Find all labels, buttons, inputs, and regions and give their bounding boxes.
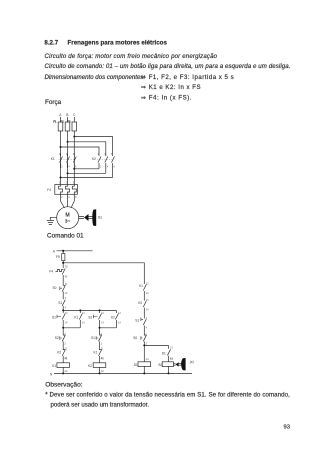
svg-text:* Deve ser conferido o valor d: * Deve ser conferido o valor da tensão n… xyxy=(45,392,290,399)
svg-text:S1: S1 xyxy=(91,336,95,340)
svg-text:S2: S2 xyxy=(55,336,59,340)
svg-text:K1: K1 xyxy=(74,316,78,320)
svg-text:F1: F1 xyxy=(53,120,57,124)
svg-text:S1: S1 xyxy=(52,316,56,320)
svg-text:⇒ K1 e K2: In x FS: ⇒ K1 e K2: In x FS xyxy=(141,84,201,91)
svg-text:S1: S1 xyxy=(58,301,62,305)
svg-text:K2: K2 xyxy=(92,157,96,161)
svg-text:K1: K1 xyxy=(51,157,55,161)
svg-text:K1: K1 xyxy=(94,351,98,355)
svg-text:K2: K2 xyxy=(57,351,61,355)
svg-text:Comando 01: Comando 01 xyxy=(47,232,84,239)
svg-text:B: B xyxy=(66,113,68,117)
svg-text:S1: S1 xyxy=(135,319,139,323)
svg-text:D1: D1 xyxy=(134,363,138,367)
svg-text:S0: S0 xyxy=(53,286,57,290)
svg-text:F5: F5 xyxy=(56,255,60,259)
svg-text:Frenagens para motores elétric: Frenagens para motores elétricos xyxy=(68,39,168,46)
svg-text:K2: K2 xyxy=(88,364,92,368)
svg-text:8.2.7: 8.2.7 xyxy=(44,39,58,46)
svg-text:(e): (e) xyxy=(190,360,194,364)
svg-text:K2: K2 xyxy=(138,301,142,305)
svg-text:F4: F4 xyxy=(47,188,51,192)
svg-text:S0: S0 xyxy=(133,336,137,340)
svg-text:93: 93 xyxy=(284,425,290,431)
svg-text:F3: F3 xyxy=(67,120,71,124)
svg-text:Dimensionamento dos componente: Dimensionamento dos componentes: xyxy=(45,74,146,81)
svg-text:Circuito de comando: 01 – um: Circuito de comando: 01 – um botão liga … xyxy=(45,63,291,70)
svg-text:B1: B1 xyxy=(159,363,163,367)
svg-text:⇒ F4: In (x FS).: ⇒ F4: In (x FS). xyxy=(141,95,192,102)
svg-text:F4: F4 xyxy=(49,270,53,274)
svg-text:K1: K1 xyxy=(52,364,56,368)
svg-text:S2: S2 xyxy=(88,316,92,320)
svg-text:F2: F2 xyxy=(60,120,64,124)
svg-text:Força: Força xyxy=(45,99,62,106)
svg-text:poderá ser usado um transforma: poderá ser usado um transformador. xyxy=(51,401,150,408)
svg-text:K2: K2 xyxy=(111,316,115,320)
svg-text:Observação:: Observação: xyxy=(45,382,83,389)
svg-text:⇒ F1, F2, e F3: Ipartida x 5 s: ⇒ F1, F2, e F3: Ipartida x 5 s xyxy=(141,74,234,81)
svg-text:3~: 3~ xyxy=(65,219,71,224)
svg-text:K1: K1 xyxy=(139,284,143,288)
svg-text:B1: B1 xyxy=(98,215,102,219)
svg-text:D1: D1 xyxy=(162,352,166,356)
svg-text:Circuito de força: motor com: Circuito de força: motor com freio mecân… xyxy=(45,53,218,60)
